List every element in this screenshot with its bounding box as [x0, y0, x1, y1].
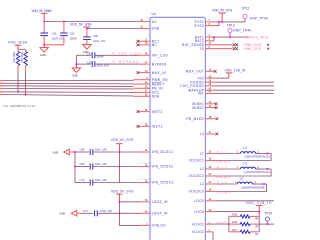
svg-text:VDD_3V3A: VDD_3V3A	[8, 41, 28, 45]
capacitor C62 10uF_10V	[87, 61, 109, 68]
svg-text:USB: USB	[152, 27, 160, 31]
junction at C62 left	[75, 63, 77, 65]
junction rail row2	[118, 166, 120, 168]
svg-text:I2C ADDRESS 0x34: I2C ADDRESS 0x34	[3, 104, 35, 108]
svg-text:INT_LDO: INT_LDO	[152, 54, 168, 58]
svg-text:VDCDC2: VDCDC2	[189, 174, 205, 178]
svg-text:C61: C61	[87, 52, 92, 56]
svg-text:SYS2: SYS2	[194, 24, 204, 28]
wire C62 left	[76, 63, 91, 65]
wire VDCDC2 feedback loop	[216, 169, 272, 176]
junction L3 out	[263, 183, 265, 185]
svg-text:AC: AC	[152, 20, 158, 24]
wire VDD_5V_SYS rail 2	[119, 202, 139, 226]
svg-text:ISET1: ISET1	[152, 125, 163, 129]
no-connect X MUX_OUT	[214, 70, 217, 73]
IC U4 body	[150, 17, 205, 240]
pin stubs U4 left side	[134, 22, 151, 226]
wire SYS1 to TP12	[216, 21, 246, 23]
svg-text:R36: R36	[232, 220, 237, 224]
svg-text:C68: C68	[80, 148, 85, 152]
wire gnd rail DCDC caps	[74, 152, 76, 183]
svg-text:DNP_TP40: DNP_TP40	[250, 16, 268, 20]
inductor L2 LQM2HPN2R2MJ0L	[237, 162, 271, 174]
wire L1 out	[256, 153, 272, 155]
svg-text:0R: 0R	[255, 217, 258, 221]
wire C71 to LDO4_IN	[97, 212, 140, 214]
x mark PMIC_BVS	[267, 44, 269, 46]
wire left rail resistors	[228, 216, 230, 231]
no-connect X ISET1	[137, 125, 140, 128]
svg-text:R39 10K: R39 10K	[20, 52, 24, 63]
capacitor C64 10uF_10V	[41, 22, 65, 45]
wire VDD_5V_SYS rail	[118, 152, 120, 183]
svg-text:LDO4: LDO4	[194, 210, 204, 214]
wire C62 to BYPASS pin, net P_BYPASS	[95, 63, 140, 65]
svg-text:C64: C64	[52, 32, 57, 36]
svg-text:PWR_EN: PWR_EN	[152, 78, 168, 82]
wire C68 to VIN_DCDC1	[93, 151, 140, 153]
svg-text:BYPASS: BYPASS	[152, 62, 167, 66]
wire C65 bottom to C64 bottom	[44, 44, 64, 46]
wire INT to edge	[216, 93, 275, 95]
svg-text:P_BYPASS: P_BYPASS	[113, 60, 139, 64]
svg-text:VLDO2: VLDO2	[192, 230, 204, 234]
svg-text:C60: C60	[93, 34, 98, 38]
svg-text:GND: GND	[72, 74, 78, 78]
svg-text:GND: GND	[40, 53, 46, 57]
svg-text:0R: 0R	[255, 224, 258, 228]
svg-text:10uF_10V: 10uF_10V	[100, 209, 113, 213]
junction rail row1	[118, 151, 120, 153]
svg-text:P_L1: P_L1	[217, 150, 227, 154]
wire LDO4 row	[216, 211, 260, 213]
wire WAKEUP to edge	[216, 89, 275, 91]
svg-text:10uF_10V: 10uF_10V	[93, 39, 106, 43]
wire L3 to inductor, net P_L3	[216, 183, 238, 185]
pin numbers U4 right	[209, 19, 212, 232]
ground for bypass caps	[72, 64, 80, 77]
svg-text:MUX_IN: MUX_IN	[152, 71, 167, 75]
svg-text:L4: L4	[200, 132, 204, 136]
junction gnd rail row1	[74, 151, 76, 153]
wire BAT1 to PMIC_BCG	[216, 36, 247, 38]
junction at C64 top	[43, 21, 45, 23]
resistor R38 pullup SCL	[12, 49, 20, 92]
svg-text:C71: C71	[83, 209, 88, 213]
no-connect X MUX_IN	[137, 71, 140, 74]
svg-text:L1: L1	[243, 146, 247, 150]
ground C71	[60, 211, 83, 217]
ground below C64	[40, 45, 48, 57]
svg-text:L2: L2	[243, 162, 247, 166]
svg-text:TS: TS	[199, 47, 204, 51]
svg-text:VDCDC3: VDCDC3	[216, 190, 231, 194]
wire bus line 5 SCL	[0, 91, 134, 94]
power flag VDD_5V_SYS (LDO input)	[111, 190, 134, 202]
wire pullup rail	[18, 48, 26, 50]
svg-text:DNP_TP40: DNP_TP40	[233, 29, 251, 33]
pin names U4 right	[180, 20, 204, 234]
inductor L1 LQM2HPN2R2M0L	[237, 146, 271, 158]
power flag VDD_1V8_IO at VIO	[225, 68, 246, 78]
svg-text:VIN_DCDC2: VIN_DCDC2	[152, 165, 174, 169]
wire right rail resistors	[258, 212, 260, 232]
junction LDO4/power	[258, 211, 260, 213]
svg-text:100nF: 100nF	[69, 37, 77, 41]
capacitor C69 10uF_10V	[75, 162, 107, 169]
svg-text:R35: R35	[232, 213, 237, 217]
svg-text:NC: NC	[152, 43, 158, 47]
power flag VDD_5V_SYS (DCDC input)	[111, 138, 134, 152]
testpoint TP14	[265, 211, 273, 224]
wire TS stub	[216, 48, 233, 50]
svg-text:U4: U4	[152, 12, 156, 16]
wire LDO3 to edge	[216, 200, 275, 202]
wire L2 out	[256, 168, 272, 170]
no-connect X FB_WLED	[216, 117, 219, 120]
wire PGOOD to edge	[216, 81, 275, 83]
svg-text:LQM2HPN2R2MJ0L: LQM2HPN2R2MJ0L	[244, 170, 271, 174]
wire LDO3_IN row	[119, 201, 139, 203]
svg-text:VDCDC1: VDCDC1	[216, 159, 231, 163]
capacitor C61 100nF	[87, 52, 104, 59]
svg-text:VDD_5V_SYS: VDD_5V_SYS	[111, 138, 134, 142]
capacitor C60 10uF_10V	[83, 29, 105, 45]
no-connect X NC1	[137, 40, 140, 43]
svg-text:VDD_5V_SYS: VDD_5V_SYS	[111, 190, 134, 194]
svg-text:VDD_5V_USB: VDD_5V_USB	[70, 23, 92, 27]
svg-text:VLDO1: VLDO1	[192, 222, 204, 226]
svg-text:10uF_10V: 10uF_10V	[95, 162, 108, 166]
no-connect X ISET2	[137, 110, 140, 113]
no-connect X ISINK1	[215, 102, 218, 105]
wire LDO_PGOOD to edge	[216, 85, 275, 87]
junction L1 out	[266, 153, 268, 155]
svg-text:C62: C62	[87, 61, 92, 65]
capacitor C70 10uF_10V	[75, 178, 107, 185]
wire VLDO1 to edge	[268, 223, 275, 225]
svg-text:L2: L2	[200, 167, 204, 171]
resistor R36 0R	[229, 220, 268, 228]
junction VLDO1 left rail	[228, 223, 230, 225]
pin numbers U4 left	[140, 19, 148, 226]
net label PMIC_BCG	[246, 35, 269, 39]
junction power stem	[221, 21, 223, 23]
wire bus line 1	[0, 79, 134, 81]
no-connect X TS	[233, 47, 238, 50]
power flag VDD_5V_SYS (top right)	[212, 9, 233, 22]
svg-text:R37: R37	[232, 228, 237, 232]
wire L3 out	[252, 183, 266, 185]
wire bus line 3	[0, 85, 134, 88]
svg-text:ISET2: ISET2	[152, 110, 163, 114]
wire BAT_SENSE stub	[216, 44, 233, 46]
svg-text:TP12: TP12	[242, 7, 250, 11]
power flag VDD_3V3A	[8, 41, 28, 50]
svg-text:L1: L1	[200, 152, 204, 156]
ground below C60	[83, 45, 91, 55]
wire VDD_5V_USB rail to USB pin	[87, 28, 140, 30]
svg-text:PMIC_BTS: PMIC_BTS	[244, 47, 261, 51]
wire gnd rail for C61/C62	[75, 55, 77, 64]
junction gnd rail row2	[74, 166, 76, 168]
junction rail LDO3_IN	[118, 201, 120, 203]
wire C61 left	[76, 54, 91, 56]
testpoint TP12 DNP_TP40	[242, 7, 268, 22]
svg-text:P_L2: P_L2	[217, 166, 227, 170]
wire bus line 2	[0, 82, 134, 85]
svg-text:VIN_DCDC3: VIN_DCDC3	[152, 181, 174, 185]
svg-text:VLDO1: VLDO1	[216, 222, 227, 226]
svg-text:INT: INT	[198, 92, 204, 96]
wire VIO to power	[216, 77, 229, 79]
pin stubs U4 right side	[205, 22, 215, 232]
wire bus line 4	[0, 88, 134, 91]
no-connect X NC	[137, 44, 140, 47]
svg-text:VDD_1V8_IO: VDD_1V8_IO	[246, 201, 272, 205]
bus left edge tips	[0, 81, 3, 95]
svg-text:PMIC_BCG: PMIC_BCG	[249, 35, 269, 39]
svg-text:LDO3_IN: LDO3_IN	[152, 200, 168, 204]
resistor R35 0R	[229, 213, 259, 221]
svg-text:VDCDC1: VDCDC1	[189, 159, 205, 163]
svg-text:L3: L3	[240, 177, 244, 181]
svg-text:0R: 0R	[255, 232, 258, 236]
wire C70 to VIN_DCDC3	[93, 182, 140, 184]
svg-text:TP13: TP13	[227, 23, 235, 27]
svg-text:VDD_5V_SYS: VDD_5V_SYS	[212, 9, 233, 13]
svg-text:C65: C65	[69, 32, 74, 36]
junction R38/SCL bus	[17, 91, 19, 93]
junction SYS2 rise	[218, 21, 220, 23]
svg-text:P_L3: P_L3	[217, 181, 227, 185]
svg-text:VDD_5V_MAIN: VDD_5V_MAIN	[32, 9, 53, 13]
junction at C65 top	[63, 21, 65, 23]
junction TP14/VLDO1	[267, 223, 269, 225]
wire BAT2 rise	[213, 37, 215, 41]
svg-text:LQM2HPN2R2MJ0L: LQM2HPN2R2MJ0L	[241, 185, 266, 189]
svg-text:C70: C70	[80, 178, 85, 182]
svg-text:10uF_10V: 10uF_10V	[95, 148, 108, 152]
wire C69 to VIN_DCDC2	[93, 166, 140, 168]
junction at C64/C65 gnd	[43, 44, 45, 46]
wire L2 to inductor, net P_L2	[216, 168, 241, 170]
svg-text:10uF_10V: 10uF_10V	[52, 37, 65, 41]
power flag VDD_5V_USB	[70, 23, 92, 29]
wire VDCDC1 feedback loop	[216, 154, 272, 161]
no-connect X ISINK2	[215, 106, 218, 109]
svg-text:VDCDC2: VDCDC2	[216, 175, 231, 179]
svg-text:VIN_DCDC1: VIN_DCDC1	[152, 150, 174, 154]
svg-text:FB_WLED: FB_WLED	[186, 117, 204, 121]
svg-text:LQM2HPN2R2MJ0L: LQM2HPN2R2MJ0L	[244, 155, 271, 159]
svg-text:GND: GND	[53, 150, 59, 154]
power flag VDD_5V_MAIN	[32, 9, 53, 22]
svg-text:SDA: SDA	[152, 95, 160, 99]
svg-text:TP14: TP14	[265, 211, 273, 215]
wire C61 to INT_LDO pin, net P_INT_LDO	[95, 54, 140, 56]
junction at C60 top	[86, 28, 88, 30]
svg-text:VINLDO: VINLDO	[152, 224, 166, 228]
svg-text:10uF_10V: 10uF_10V	[95, 178, 108, 182]
x mark PMIC_BTS	[267, 48, 269, 50]
testpoint TP13 DNP_TP40	[227, 23, 252, 37]
no-connect X BAT_SENSE	[233, 43, 238, 46]
wire bus line 6 SDA	[0, 95, 134, 97]
junction L2 out	[266, 168, 268, 170]
svg-text:L3: L3	[200, 182, 204, 186]
svg-text:VDCDC3: VDCDC3	[189, 190, 205, 194]
power flag VDD_1V8_IO at LDO4	[246, 201, 272, 211]
resistor R39 pullup SDA	[20, 49, 28, 94]
resistor R37 0R	[229, 228, 259, 236]
wire SYS2 rise	[216, 22, 220, 26]
capacitor C65 100nF	[60, 22, 77, 45]
svg-text:R38 10K: R38 10K	[12, 52, 16, 63]
svg-text:LDO3: LDO3	[194, 199, 204, 203]
svg-text:LDO4_IN: LDO4_IN	[152, 212, 168, 216]
junction TP13 stem	[229, 36, 231, 38]
wire VLDO1 row	[212, 223, 229, 225]
svg-text:MUX_OUT: MUX_OUT	[186, 70, 204, 74]
wire VDD_5V_MAIN rail to AC pin	[44, 21, 140, 23]
capacitor C68 10uF_10V	[75, 148, 107, 155]
svg-text:VDD_1V8_IO: VDD_1V8_IO	[225, 68, 246, 72]
ground input caps	[53, 149, 76, 155]
junction R39/SDA bus	[25, 94, 27, 96]
capacitor C71 10uF_10V	[82, 209, 113, 216]
wire VLDO2 down	[212, 232, 214, 240]
svg-text:GND: GND	[60, 212, 66, 216]
no-connect X L4	[216, 133, 219, 136]
junction rail LDO4_IN	[118, 212, 120, 214]
pin names U4 left	[152, 20, 174, 228]
svg-text:C69: C69	[80, 162, 85, 166]
junction BAT2 rise	[213, 36, 215, 38]
wire L1 to inductor, net P_L1	[216, 153, 241, 155]
inductor L3 LQM2HPN2R2MJ0L	[233, 177, 265, 190]
svg-text:ISINK2: ISINK2	[192, 106, 205, 110]
wire VDCDC3 feedback loop	[216, 184, 267, 192]
